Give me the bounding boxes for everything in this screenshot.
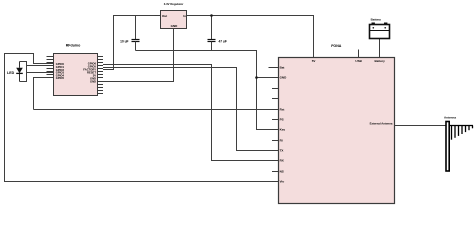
wire: LED loop (anode top, cathode bottom, right leg) <box>20 62 27 82</box>
svg-text:TX: TX <box>280 149 284 153</box>
RFduino left pins (8 stubs) <box>47 57 54 78</box>
wire: RFduino pin4 right to TX vertical, down to FONA TX <box>103 68 279 151</box>
svg-text:External Antenna: External Antenna <box>370 122 393 126</box>
wire: regulator In to 5V rail, over to FONA 5V pin <box>187 16 314 58</box>
svg-text:47 uF: 47 uF <box>219 39 227 43</box>
wire: RFduino pin3 right to RX vertical, down to FONA RX <box>103 65 279 161</box>
wire: FONA external antenna to antenna <box>395 125 447 127</box>
svg-text:NS: NS <box>280 170 284 174</box>
wire: outer loop from RFduino GPIO pin3 up-left, down left edge, bottom bus to FONA Vio <box>5 54 280 182</box>
RFduino right pins (13 stubs) <box>98 57 104 94</box>
svg-text:RI: RI <box>280 139 283 143</box>
wire: RFduino left pin8 (GND) down to reset bus <box>34 78 54 110</box>
RFduino left pin labels <box>56 62 65 80</box>
capacitor C2 47uF <box>208 16 227 51</box>
svg-text:Antenna: Antenna <box>444 116 456 120</box>
svg-text:In: In <box>183 14 186 18</box>
FONA left pins (12 stubs) <box>269 68 280 182</box>
svg-text:Bat: Bat <box>280 65 285 69</box>
svg-text:FONA: FONA <box>331 44 342 48</box>
svg-text:Out: Out <box>162 14 167 18</box>
capacitor C1 10uF <box>120 16 139 51</box>
svg-text:Battery: Battery <box>375 59 386 63</box>
svg-text:Battery: Battery <box>371 18 382 22</box>
svg-text:Key: Key <box>280 128 286 132</box>
svg-text:RFduino: RFduino <box>66 43 81 47</box>
svg-text:PS: PS <box>280 118 284 122</box>
svg-text:USB: USB <box>355 59 362 63</box>
wire: LED loop to RFduino pin6 <box>27 72 54 74</box>
svg-text:Vio: Vio <box>280 180 285 184</box>
svg-text:RX: RX <box>280 159 284 163</box>
wire: reset bus to FONA Rst <box>34 109 280 111</box>
wire: RFduino 3V pin up to regulator Out <box>103 16 161 70</box>
FONA left pin labels <box>280 65 288 183</box>
svg-text:10 uF: 10 uF <box>120 39 128 43</box>
RFduino right pin labels <box>83 62 96 84</box>
wire: LED loop to RFduino pin4 <box>27 65 54 67</box>
svg-text:3.3V Regulator: 3.3V Regulator <box>164 2 184 6</box>
voltage regulator U2 3.3V <box>155 2 194 29</box>
antenna ANT1 <box>444 116 473 171</box>
svg-text:Rst: Rst <box>280 108 285 112</box>
battery BT1 <box>370 18 390 39</box>
FONA right pin: External Antenna <box>370 122 402 126</box>
junction at GND bus and FONA GND wire <box>255 76 258 79</box>
wire: capacitor ground bus down to FONA GND <box>136 51 280 130</box>
FONA top pins: 5V, USB, Battery <box>359 39 380 58</box>
junction on 5V rail at C2 <box>210 14 213 17</box>
FONA U3 <box>279 44 395 204</box>
svg-text:LED: LED <box>7 71 15 75</box>
wire: regulator GND down and left to RFduino pin <box>103 29 174 82</box>
svg-text:GND: GND <box>171 24 179 28</box>
svg-text:GND: GND <box>280 76 288 80</box>
wire: ground junction to FONA GND pin <box>257 77 280 79</box>
svg-text:5V: 5V <box>312 59 316 63</box>
svg-text:GPIO5: GPIO5 <box>56 76 65 80</box>
RFduino U1 <box>54 43 98 95</box>
LED D1 <box>7 62 23 82</box>
svg-text:GND: GND <box>90 80 96 84</box>
